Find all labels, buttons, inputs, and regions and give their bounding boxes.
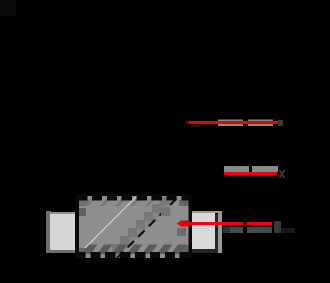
left cap top edge xyxy=(50,212,75,214)
leader line 1 (top) xyxy=(186,120,283,128)
right cap dark side border xyxy=(214,214,218,253)
label 2 text block A xyxy=(224,166,249,172)
leader line 2 (middle) xyxy=(224,166,285,178)
right cap dark bottom border xyxy=(190,249,218,253)
right border edge xyxy=(188,196,192,258)
corner shade patches xyxy=(77,200,89,206)
left border edge xyxy=(76,196,80,258)
top border dashes xyxy=(77,194,190,201)
left cap side frame xyxy=(46,211,51,253)
right cap outer strip xyxy=(218,211,222,253)
light diagonal highlight line xyxy=(79,195,138,254)
shade patch mid-right xyxy=(161,207,170,216)
label 3 faint tail xyxy=(281,228,295,233)
label 3 trailing glyph xyxy=(274,221,281,233)
left cap bottom frame xyxy=(46,249,75,253)
leader line 3 arrowhead body xyxy=(180,221,190,227)
bottom hatch marks xyxy=(82,245,187,255)
right terminal cap xyxy=(188,211,222,253)
leader line 3 red stroke segment B xyxy=(247,222,273,225)
label 1 trailing glyph xyxy=(278,120,283,126)
left terminal cap xyxy=(46,211,75,253)
label 3 text block dim segment xyxy=(223,227,231,233)
label 3 text block B xyxy=(247,227,272,233)
dark dashed diagonal line xyxy=(117,196,179,258)
label 3 text block A xyxy=(230,227,243,233)
label 2 text block B xyxy=(252,166,278,172)
bottom border dashes xyxy=(77,252,190,258)
leader line 1 red stroke xyxy=(189,121,278,124)
resistor body xyxy=(76,195,192,258)
right cap top edge xyxy=(192,211,222,213)
right cap face xyxy=(188,213,215,249)
leader line 2 red stroke xyxy=(224,172,277,175)
leader line 1 tip shadow xyxy=(191,125,200,127)
label 2 trailing x glyph xyxy=(280,170,285,178)
label 1 text block B xyxy=(248,120,273,127)
leader line 3 arrowhead point xyxy=(177,220,182,227)
label 1 text block A xyxy=(218,120,243,127)
leader line 1 dim tip xyxy=(186,122,189,124)
faint corner square xyxy=(0,0,16,16)
top hatch marks xyxy=(85,199,170,206)
stair-step shading squares xyxy=(112,197,169,253)
arrowhead shadow on body xyxy=(177,228,186,236)
leader line 3 red stroke segment A xyxy=(190,222,244,225)
shaded diagonal band xyxy=(104,197,178,257)
left cap face xyxy=(50,214,75,250)
leader line 3 (bottom, pointing into body) xyxy=(177,220,295,236)
